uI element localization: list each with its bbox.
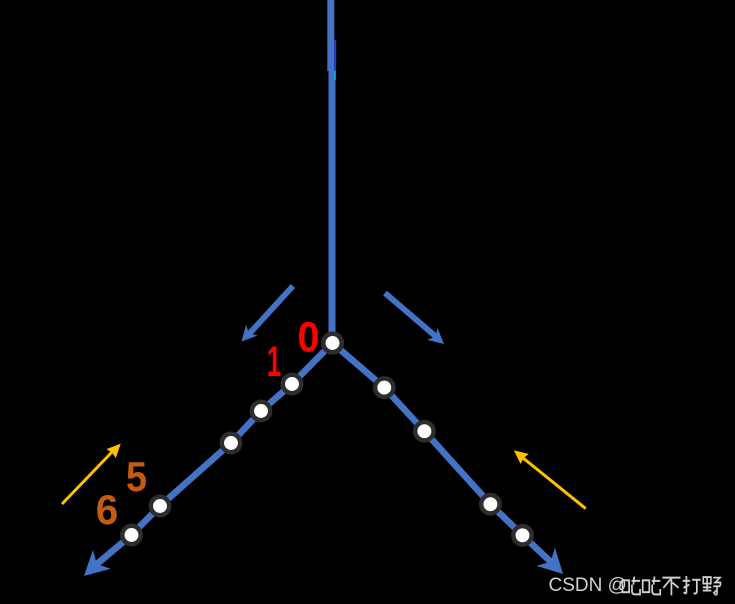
node 1 (left branch dot 1) [283, 375, 301, 393]
svg-text:0: 0 [298, 314, 320, 362]
watermark: hanzi 野 [703, 577, 721, 595]
node: left branch dot 2 [252, 402, 270, 420]
node: right branch dot 1 [375, 378, 393, 396]
node 6 (left branch dot 5) [122, 526, 140, 544]
arrowhead right branch [536, 547, 572, 583]
arrow: gold annotation arrow lower-right [520, 456, 586, 509]
arrow: small blue annotation arrow upper-right [385, 293, 437, 338]
arrowhead left branch [75, 550, 111, 586]
svg-text:6: 6 [96, 486, 119, 533]
wire: cyan sliver on trunk [334, 71, 336, 80]
wire: bright blue sliver on trunk [334, 40, 336, 71]
watermark: hanzi 不 [662, 578, 680, 596]
node 5 (left branch dot 4) [151, 497, 169, 515]
watermark: hanzi 打 [683, 576, 701, 594]
node: left branch dot 3 [222, 434, 240, 452]
node: right branch dot 3 [481, 495, 499, 513]
arrow: small blue annotation arrow upper-left [249, 286, 293, 334]
watermark: hanzi 吨 (2) [643, 577, 661, 595]
wire: vertical trunk lower segment [329, 70, 336, 344]
node: right branch dot 4 [513, 526, 531, 544]
node 0 (root vertex) [323, 334, 342, 353]
watermark: hanzi 吨 (1) [622, 577, 640, 595]
svg-text:5: 5 [126, 453, 147, 500]
svg-text:1: 1 [267, 338, 282, 386]
svg-text:CSDN @: CSDN @ [549, 575, 627, 596]
wire: left branch [96, 343, 333, 565]
wire: vertical trunk upper segment [327, 0, 334, 71]
node: right branch dot 2 [415, 422, 433, 440]
wire: right branch [333, 343, 553, 563]
arrow: gold annotation arrow lower-left [62, 452, 112, 504]
